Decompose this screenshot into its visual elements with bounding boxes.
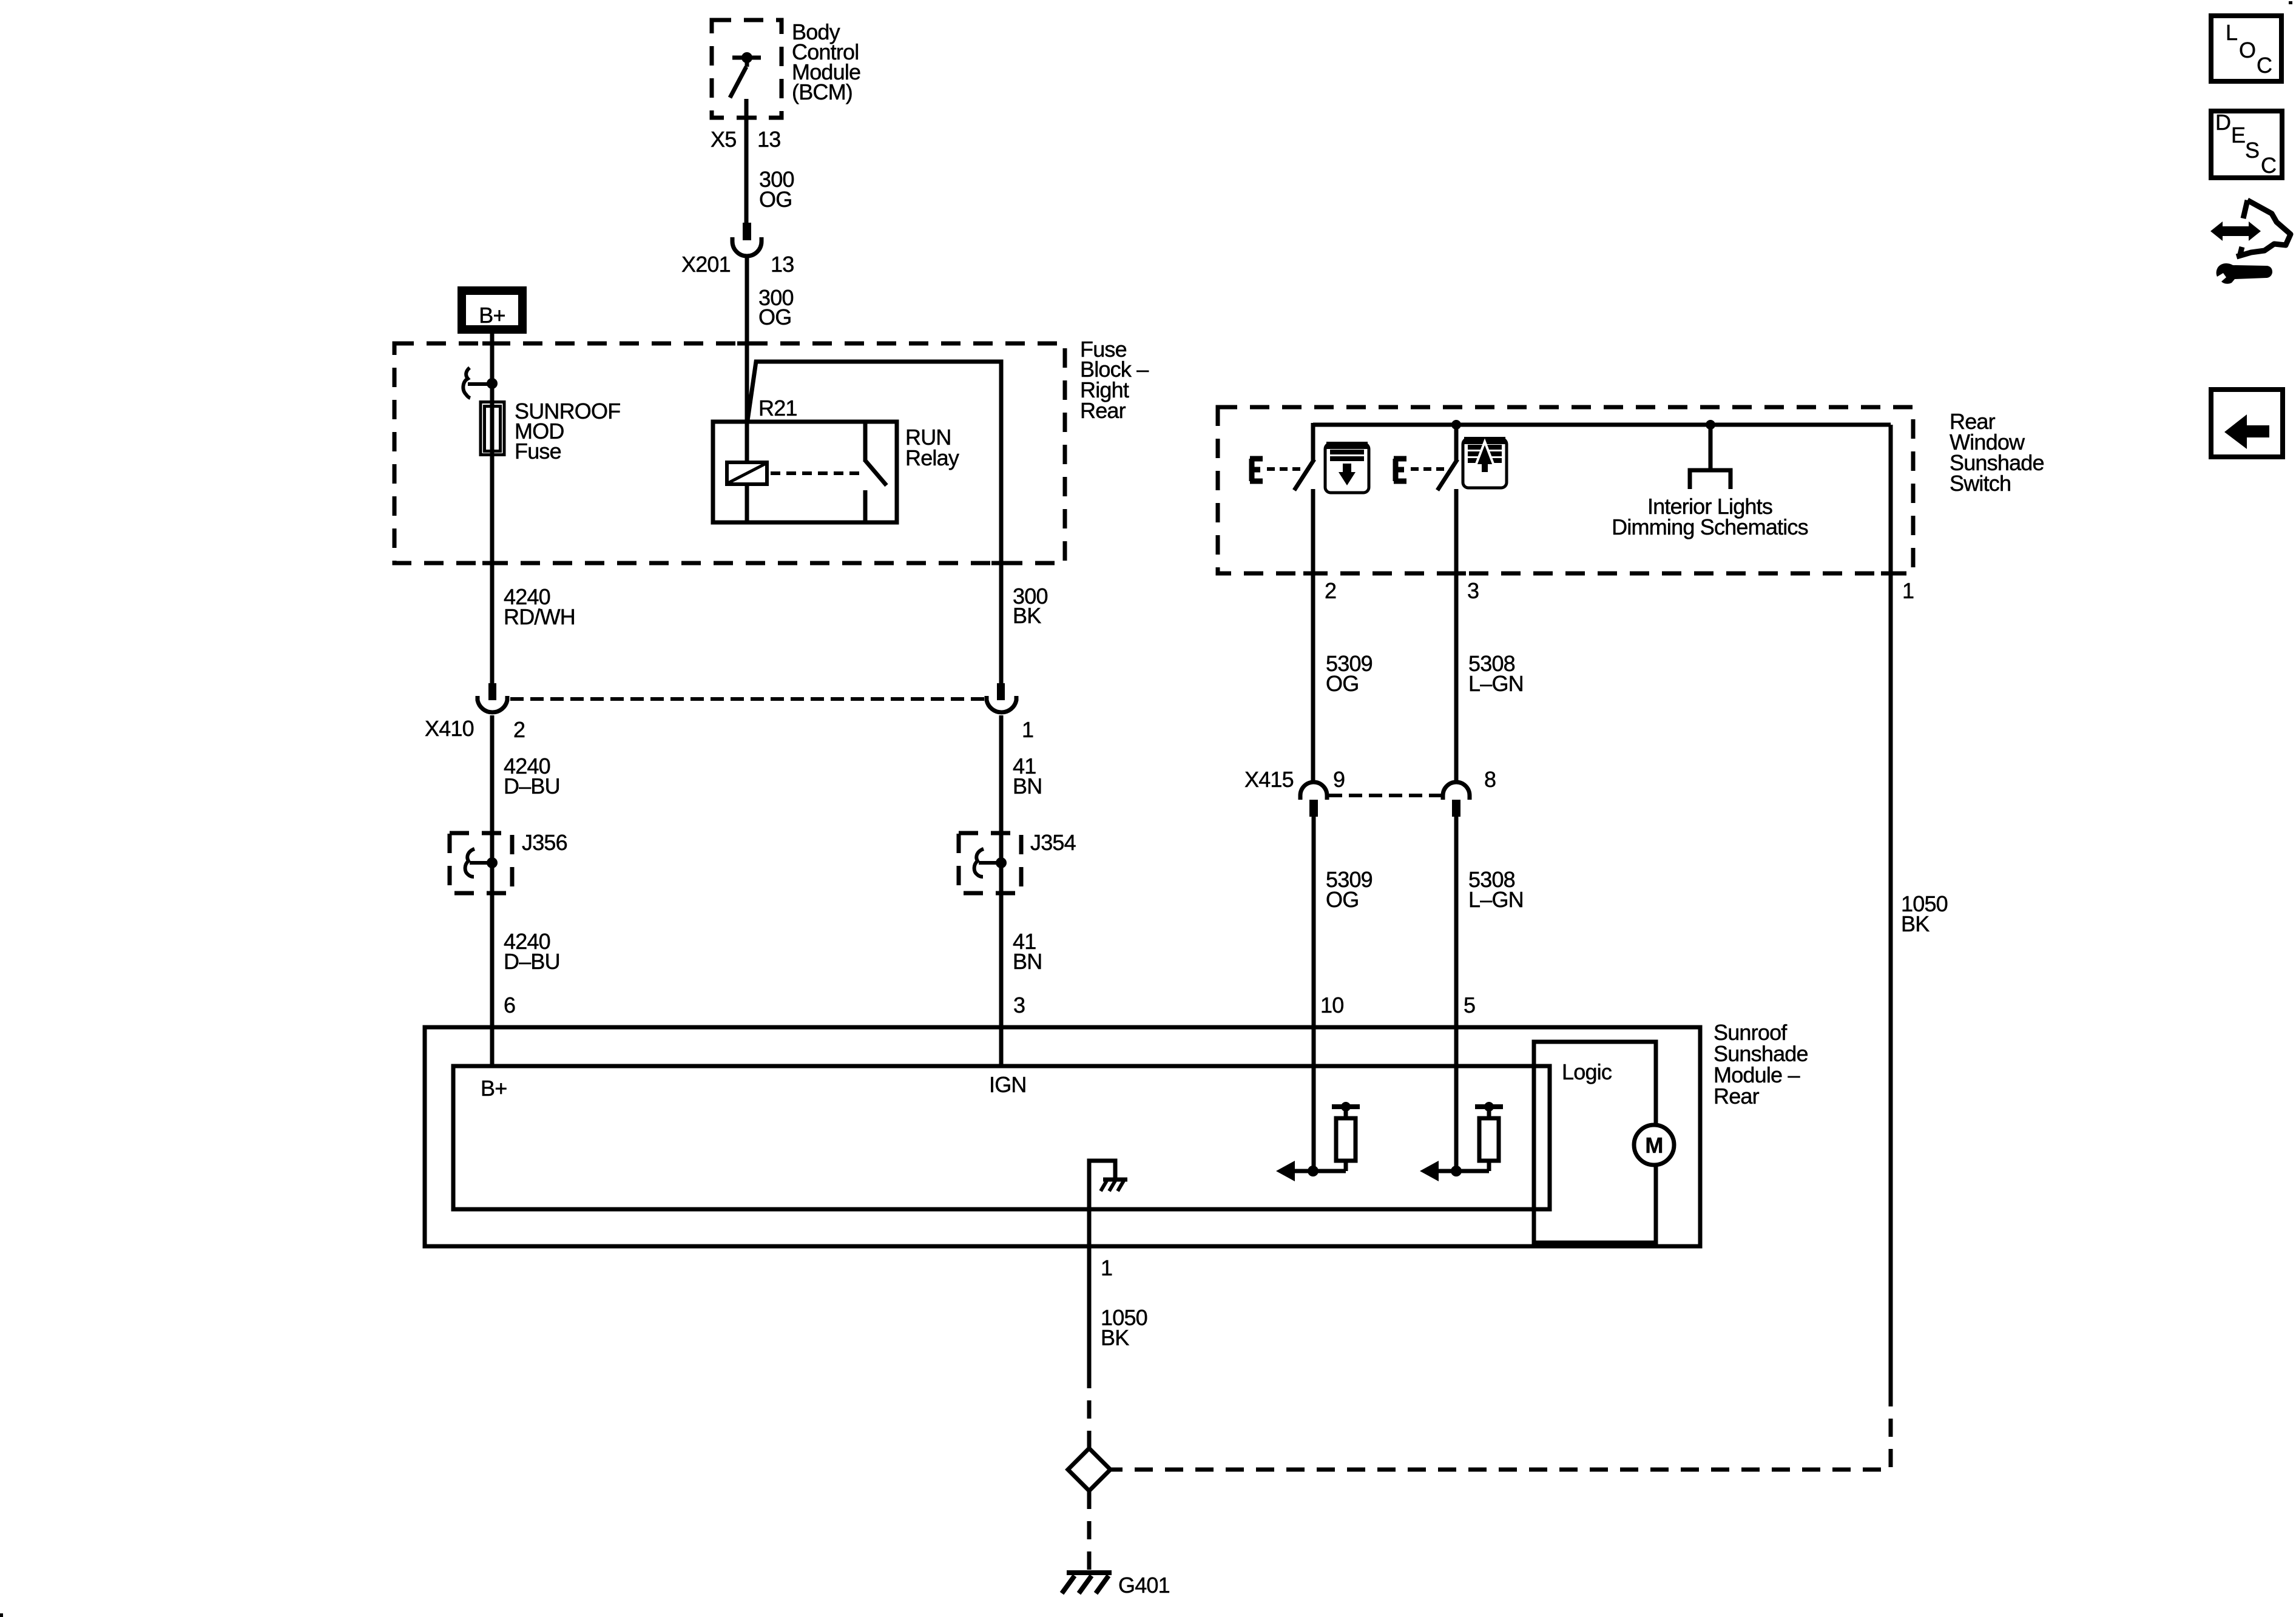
- splice diamond node: [1068, 1448, 1110, 1491]
- module inner box: [453, 1066, 1550, 1209]
- switch bus bar: [1313, 423, 1891, 427]
- svg-text:8: 8: [1484, 767, 1496, 792]
- svg-text:J356: J356: [522, 830, 567, 855]
- svg-text:C: C: [2261, 153, 2276, 178]
- svg-text:X5: X5: [711, 127, 736, 152]
- label Sunroof Sunshade Module - Rear: [1714, 1020, 1808, 1109]
- svg-text:BK: BK: [1101, 1325, 1129, 1350]
- svg-text:1: 1: [1022, 717, 1033, 742]
- svg-text:O: O: [2239, 38, 2255, 62]
- wire B+ to fuse: [490, 334, 495, 402]
- svg-text:S: S: [2245, 138, 2259, 163]
- node bus to up switch: [1451, 420, 1461, 430]
- svg-text:Relay: Relay: [905, 445, 959, 470]
- svg-text:R21: R21: [758, 396, 797, 420]
- E actuator up: [1394, 459, 1448, 481]
- label BCM: [792, 19, 860, 104]
- E actuator down: [1250, 459, 1305, 481]
- svg-text:G401: G401: [1118, 1573, 1170, 1598]
- svg-text:D–BU: D–BU: [504, 949, 560, 974]
- svg-text:3: 3: [1013, 993, 1025, 1018]
- svg-text:X415: X415: [1244, 767, 1294, 792]
- DESC legend box: [2211, 110, 2282, 178]
- label Interior Lights Dimming Schematics: [1612, 494, 1808, 539]
- svg-text:Fuse: Fuse: [515, 439, 561, 464]
- junction node pin 10: [1308, 1166, 1319, 1176]
- relay dashed actuator link: [771, 471, 860, 475]
- svg-text:C: C: [2257, 53, 2272, 78]
- svg-text:L: L: [2226, 20, 2237, 45]
- svg-text:6: 6: [504, 993, 515, 1018]
- sunshade down switch: [1294, 423, 1314, 783]
- svg-text:(BCM): (BCM): [792, 79, 853, 104]
- wire relay feed to RUN output: [748, 362, 1001, 683]
- ground G401: [1062, 1573, 1112, 1593]
- svg-text:X410: X410: [425, 716, 474, 741]
- Rear Window Sunshade Switch dashed box: [1218, 407, 1913, 573]
- svg-text:L–GN: L–GN: [1468, 887, 1524, 912]
- svg-text:M: M: [1645, 1133, 1663, 1158]
- B+ terminal box: [462, 291, 522, 329]
- svg-text:Logic: Logic: [1562, 1059, 1612, 1084]
- wire 300 OG X201 to fuse block: [745, 256, 749, 343]
- drive arrow pin 10: [1276, 1161, 1295, 1181]
- connector X410 pin 1: [987, 683, 1016, 712]
- svg-text:5: 5: [1464, 993, 1475, 1018]
- BCM internal switch: [730, 52, 761, 98]
- node bus to interior lights: [1706, 420, 1715, 430]
- svg-text:Switch: Switch: [1950, 471, 2011, 496]
- svg-text:X201: X201: [681, 252, 731, 277]
- wire 5309 OG X415 to module: [1312, 817, 1316, 1171]
- svg-text:OG: OG: [1326, 887, 1359, 912]
- SUNROOF MOD fuse: [481, 402, 504, 455]
- page corner marks: [0, 1613, 3, 1617]
- label Fuse Block - Right Rear: [1080, 337, 1149, 423]
- svg-text:13: 13: [757, 127, 780, 152]
- motor M: [1634, 1125, 1674, 1165]
- svg-text:D–BU: D–BU: [504, 774, 560, 798]
- svg-text:L–GN: L–GN: [1468, 671, 1524, 696]
- shade up icon: [1463, 437, 1507, 488]
- circuit breaker hook at fuse: [463, 368, 488, 398]
- LOC legend box: [2211, 16, 2281, 81]
- svg-text:1: 1: [1902, 578, 1914, 603]
- splice J354: [959, 833, 1021, 893]
- wire 4240 RD/WH fuse to X410: [490, 397, 495, 683]
- connector X410 pin 2: [478, 683, 507, 712]
- svg-text:BK: BK: [1013, 603, 1041, 628]
- wire 1050 BK switch to ground network: [1889, 425, 1893, 1388]
- X415 dashed connector link: [1329, 794, 1441, 797]
- resistor at pin 10 input: [1292, 1102, 1360, 1171]
- wire 41 BN X410 to module: [999, 715, 1004, 1068]
- svg-text:OG: OG: [759, 187, 792, 212]
- svg-text:J354: J354: [1030, 830, 1076, 855]
- dashed wire right leg to diamond: [1110, 1388, 1891, 1470]
- sunshade up switch: [1437, 425, 1457, 783]
- junction node pin 5: [1451, 1166, 1462, 1176]
- svg-text:OG: OG: [758, 305, 791, 329]
- dashed wire diamond to G401: [1087, 1491, 1092, 1573]
- svg-text:1: 1: [1101, 1255, 1112, 1280]
- svg-text:D: D: [2215, 110, 2230, 135]
- relay coil: [727, 343, 767, 522]
- X410 dashed connector link: [510, 697, 985, 701]
- svg-text:3: 3: [1467, 578, 1479, 603]
- svg-text:BN: BN: [1013, 949, 1042, 974]
- junction node at fuse feed: [487, 378, 498, 389]
- svg-text:RD/WH: RD/WH: [504, 604, 575, 629]
- shade down icon: [1325, 442, 1369, 493]
- svg-text:Rear: Rear: [1080, 398, 1126, 423]
- wire 4240 D-BU X410 to module: [490, 715, 495, 1068]
- RUN relay R21 box: [713, 422, 897, 522]
- interior lights dimming tap: [1690, 425, 1730, 489]
- svg-text:IGN: IGN: [989, 1072, 1027, 1097]
- Sunroof Sunshade Module - Rear outer box: [425, 1027, 1700, 1246]
- svg-text:2: 2: [513, 717, 525, 742]
- Body Control Module (BCM) dashed box: [712, 20, 782, 118]
- connector X415 pin 8: [1443, 782, 1470, 817]
- svg-text:BN: BN: [1013, 774, 1042, 798]
- label SUNROOF MOD Fuse: [515, 399, 620, 464]
- wire BCM to X201 connector: [737, 99, 757, 224]
- connector X415 pin 9: [1300, 782, 1327, 817]
- module internal ground symbol: [1089, 1161, 1127, 1370]
- Logic box: [1534, 1042, 1656, 1243]
- svg-text:2: 2: [1325, 578, 1336, 603]
- Fuse Block - Right Rear dashed box: [394, 343, 1065, 563]
- svg-text:Rear: Rear: [1714, 1084, 1760, 1109]
- relay switch: [865, 422, 886, 522]
- svg-text:OG: OG: [1326, 671, 1359, 696]
- svg-text:B+: B+: [479, 303, 505, 328]
- svg-text:13: 13: [771, 252, 794, 277]
- drive arrow pin 5: [1420, 1161, 1439, 1181]
- resistor at pin 5 input: [1436, 1102, 1503, 1171]
- wire 5308 L-GN X415 to module: [1454, 817, 1459, 1171]
- wire 1050 BK module pin 1 dashed: [1087, 1370, 1092, 1449]
- svg-text:Dimming Schematics: Dimming Schematics: [1612, 515, 1808, 539]
- svg-text:9: 9: [1333, 767, 1345, 792]
- service tool icon: [2210, 200, 2291, 284]
- svg-text:10: 10: [1320, 993, 1343, 1018]
- back arrow box: [2211, 390, 2283, 457]
- connector X201 pin 13: [732, 223, 761, 256]
- splice J356: [450, 833, 512, 893]
- svg-text:E: E: [2231, 123, 2245, 147]
- label Rear Window Sunshade Switch: [1950, 409, 2044, 496]
- label RUN Relay: [905, 425, 959, 470]
- svg-text:B+: B+: [481, 1076, 507, 1101]
- svg-text:BK: BK: [1901, 911, 1930, 936]
